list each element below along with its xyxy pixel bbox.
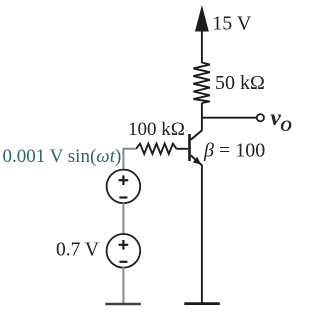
wire output node <box>202 117 257 119</box>
svg-text:0.001 V sin(ωt): 0.001 V sin(ωt) <box>3 146 122 167</box>
svg-text:O: O <box>280 118 292 135</box>
transistor Q1 emitter line <box>191 155 202 165</box>
source V2 plus sign <box>119 240 129 250</box>
svg-text:β = 100: β = 100 <box>203 140 265 162</box>
power supply arrow 15V <box>196 7 209 63</box>
transistor Q1 emitter arrow <box>193 157 201 165</box>
ground left <box>105 303 141 306</box>
resistor R1 50 kOhm <box>193 63 210 104</box>
svg-text:100 kΩ: 100 kΩ <box>128 119 185 140</box>
wire collector rail <box>201 103 203 131</box>
transistor Q1 collector line <box>191 130 202 139</box>
resistor R2 100 kOhm <box>136 144 177 154</box>
svg-text:50 kΩ: 50 kΩ <box>215 72 265 94</box>
svg-text:15 V: 15 V <box>212 13 252 35</box>
source V2 0.7V circle <box>107 234 141 268</box>
source V1 plus sign <box>119 175 129 185</box>
transistor Q1 base bar <box>188 134 191 161</box>
label vO <box>271 105 293 135</box>
wire base lead <box>177 148 189 150</box>
wire emitter to ground <box>201 165 203 304</box>
output terminal circle <box>257 114 264 121</box>
wire between sources <box>122 203 124 235</box>
wire corner from source to resistor <box>123 149 136 170</box>
ground right <box>184 302 220 305</box>
svg-text:0.7 V: 0.7 V <box>56 240 99 261</box>
source V2 minus sign <box>119 261 127 263</box>
source V1 minus sign <box>119 196 127 198</box>
source V1 signal circle <box>107 170 141 204</box>
wire source to ground <box>122 267 124 304</box>
